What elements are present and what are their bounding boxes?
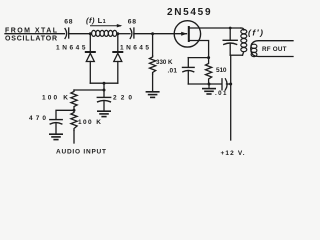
wire C1 to L1 bbox=[69, 33, 91, 35]
svg-text:330 K: 330 K bbox=[156, 59, 173, 66]
wire junction to C4 branch bbox=[56, 110, 74, 119]
capacitor C1 value 68 bbox=[65, 29, 67, 39]
capacitor C2 value 68 bbox=[130, 29, 132, 39]
ground below C3 bbox=[98, 111, 110, 116]
inductor L1 with tuning arrow and label (f) L1 bbox=[86, 16, 122, 36]
wire drain of Q1 to tank bbox=[189, 27, 241, 29]
svg-text:68: 68 bbox=[64, 19, 73, 26]
capacitor C4 with label 470 bbox=[29, 115, 62, 134]
wire tank bottom to T1 primary bottom bbox=[230, 54, 242, 56]
transformer T1 secondary winding bbox=[251, 44, 257, 56]
ground below R3 bbox=[146, 92, 158, 98]
wire source of Q1 bbox=[189, 41, 209, 58]
wire input to C1 bbox=[5, 33, 65, 35]
wire audio feed to R1 bbox=[74, 89, 104, 91]
wire joining diode cathodes bbox=[90, 82, 118, 84]
resistor R3 330K bbox=[150, 34, 174, 91]
resistor R1 100K (upper) bbox=[42, 90, 77, 110]
diode D1 1N645 (left) bbox=[56, 34, 95, 83]
svg-text:470: 470 bbox=[29, 115, 46, 122]
svg-text:AUDIO INPUT: AUDIO INPUT bbox=[56, 149, 106, 156]
svg-text:100 K: 100 K bbox=[78, 119, 101, 126]
node junction dot left of L1 bbox=[89, 32, 92, 35]
wire R2 to audio input terminal bbox=[73, 131, 75, 144]
wire RC network bottom to C6 bbox=[188, 83, 221, 85]
capacitor C3 value 220 bbox=[97, 94, 132, 110]
resistor R2 100K (lower) bbox=[71, 110, 101, 130]
wire RC network top bbox=[188, 57, 208, 59]
capacitor C6 value .01 (supply bypass) bbox=[215, 79, 231, 97]
wire supply rail down to +12V bbox=[230, 55, 232, 140]
diode D2 1N645 (right) bbox=[113, 34, 149, 83]
node junction dot between R1 R2 bbox=[73, 109, 76, 112]
transistor Q1 2N5459 JFET bbox=[167, 7, 211, 47]
node RF OUT cable bbox=[251, 41, 293, 57]
svg-text:+12 V.: +12 V. bbox=[221, 150, 245, 157]
transformer T1 primary winding bbox=[241, 28, 247, 55]
svg-text:510: 510 bbox=[216, 67, 227, 74]
ground below C4 bbox=[50, 134, 62, 139]
resistor R4 510 bbox=[206, 58, 227, 84]
node junction dot drain/C5 bbox=[229, 27, 232, 30]
wire C2 to gate of Q1 bbox=[134, 33, 187, 35]
node junction dot audio feed bbox=[103, 89, 106, 92]
node junction dot diode join bbox=[103, 82, 106, 85]
ground at source network bbox=[203, 84, 215, 94]
node junction dot right of L1 bbox=[116, 32, 119, 35]
wire L1 to C2 bbox=[118, 33, 130, 35]
node junction dot at 330K tap bbox=[151, 32, 154, 35]
capacitor C7 value .01 (source bypass) bbox=[168, 58, 195, 84]
node input: FROM XTAL OSCILLATOR label bbox=[5, 28, 58, 43]
wire diode join down to C3 bbox=[103, 83, 105, 97]
svg-text:.01: .01 bbox=[168, 67, 178, 74]
node junction dot on supply rail bbox=[229, 83, 232, 86]
capacitor C5 (tank, across T1 primary) bbox=[223, 28, 237, 55]
node junction dot ground tap bbox=[208, 83, 211, 86]
svg-text:RF OUT: RF OUT bbox=[262, 46, 287, 53]
svg-text:220: 220 bbox=[113, 94, 132, 101]
node junction dot source/RC top bbox=[207, 56, 210, 59]
svg-text:OSCILLATOR: OSCILLATOR bbox=[5, 36, 57, 43]
svg-text:68: 68 bbox=[128, 19, 137, 26]
